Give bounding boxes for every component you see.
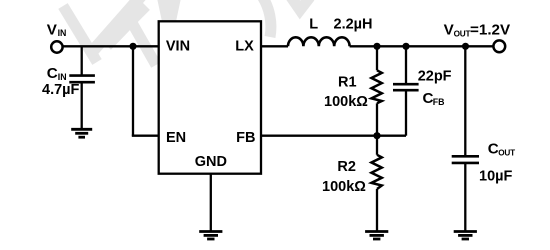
- node junction COUT: [462, 43, 469, 50]
- svg-text:=1.2V: =1.2V: [470, 21, 511, 38]
- capacitor COUT: [452, 156, 479, 163]
- wire EN branch vertical: [132, 46, 134, 135]
- svg-text:L: L: [309, 17, 318, 33]
- wire CFB top: [405, 46, 407, 83]
- svg-text:4.7µF: 4.7µF: [42, 82, 80, 98]
- wire inductor to VOUT terminal: [350, 45, 493, 47]
- node junction CFB top: [402, 43, 409, 50]
- wire COUT top: [464, 46, 466, 155]
- svg-text:IN: IN: [58, 28, 67, 38]
- wire EN branch horizontal: [132, 135, 159, 137]
- svg-text:FB: FB: [433, 97, 445, 107]
- svg-text:10µF: 10µF: [479, 168, 512, 184]
- wire COUT to ground: [464, 164, 466, 231]
- resistor R2: [371, 155, 381, 189]
- wire top-left rail: [64, 45, 159, 47]
- resistor R1: [371, 70, 381, 103]
- svg-text:EN: EN: [166, 130, 186, 146]
- svg-text:OUT: OUT: [498, 148, 515, 157]
- inductor L: [288, 37, 350, 46]
- node junction LX/R1: [373, 43, 380, 50]
- terminal VOUT: [493, 40, 505, 52]
- node junction VIN/EN: [129, 43, 136, 50]
- wire CIN tap: [81, 46, 83, 74]
- wire R1 top: [376, 46, 378, 70]
- svg-text:FB: FB: [236, 130, 255, 146]
- svg-text:LX: LX: [235, 39, 254, 55]
- svg-text:C: C: [47, 65, 58, 82]
- svg-text:R1: R1: [338, 74, 357, 90]
- svg-text:2.2µH: 2.2µH: [334, 17, 373, 33]
- wire LX to inductor: [261, 45, 288, 47]
- svg-text:C: C: [488, 140, 499, 157]
- wire R2 top: [376, 136, 378, 155]
- wire FB rail: [261, 135, 406, 137]
- svg-text:IN: IN: [58, 72, 67, 82]
- svg-text:100kΩ: 100kΩ: [324, 94, 368, 110]
- svg-text:V: V: [47, 21, 58, 38]
- IC U1 body: [159, 21, 261, 173]
- ground CIN: [71, 129, 92, 137]
- wire GND pin: [210, 174, 212, 231]
- capacitor CFB: [393, 84, 419, 90]
- wire R1 bottom: [376, 103, 378, 135]
- node junction FB: [373, 132, 380, 139]
- capacitor CIN: [69, 76, 95, 83]
- svg-text:R2: R2: [337, 159, 356, 175]
- ground COUT: [454, 232, 477, 240]
- svg-text:VIN: VIN: [166, 39, 190, 55]
- wire CIN to ground: [81, 82, 83, 128]
- wire R2 to ground: [376, 189, 378, 231]
- terminal VIN: [51, 41, 62, 52]
- svg-text:22pF: 22pF: [418, 68, 452, 84]
- ground GND pin: [199, 232, 222, 240]
- svg-text:GND: GND: [195, 154, 227, 170]
- svg-text:100kΩ: 100kΩ: [322, 179, 366, 195]
- wire CFB bottom: [405, 91, 407, 136]
- svg-text:OUT: OUT: [454, 29, 471, 38]
- ground R2: [365, 232, 388, 240]
